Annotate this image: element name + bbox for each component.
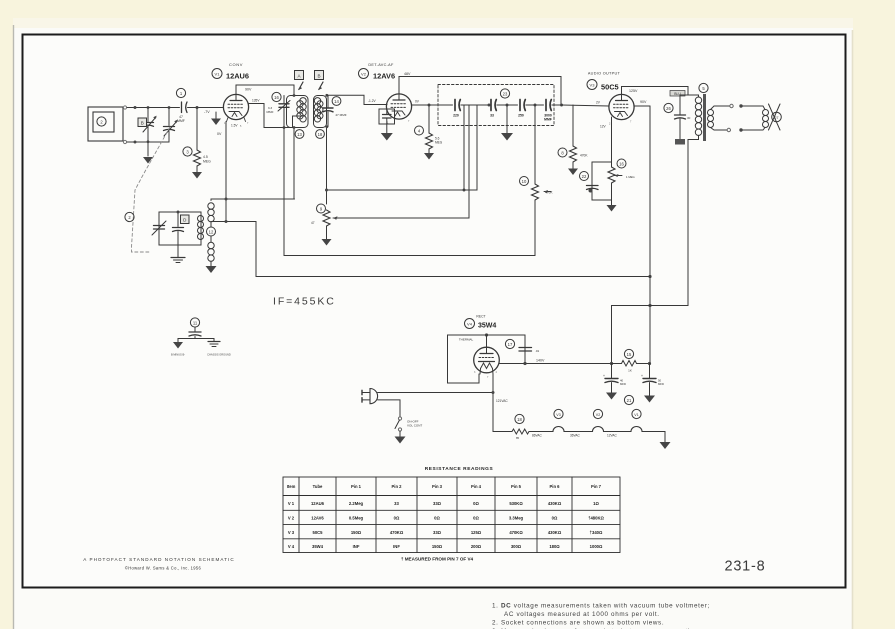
svg-text:AUDIO OUTPUT: AUDIO OUTPUT [588, 72, 621, 76]
node junction at cathode line [225, 198, 228, 201]
svg-text:MFD: MFD [658, 382, 664, 386]
wire: line y=218 with arrow [333, 106, 469, 219]
dashed gang coupling line [132, 127, 171, 252]
svg-text:125V: 125V [629, 89, 638, 93]
ground (diode load) [381, 124, 393, 141]
antenna terminal bottom [123, 140, 126, 143]
svg-text:16: 16 [619, 162, 624, 167]
heater V3 [553, 409, 564, 431]
svg-text:4.5: 4.5 [203, 155, 208, 159]
ground (couplate center) [501, 105, 513, 141]
svg-text:430KΩ: 430KΩ [548, 501, 562, 506]
wire heater string end to ground [642, 432, 665, 443]
svg-text:1000Ω: 1000Ω [590, 544, 603, 549]
speaker terminals [730, 104, 733, 107]
svg-text:90V: 90V [245, 88, 252, 92]
volume control R16 with box [592, 159, 635, 200]
svg-text:0Ω: 0Ω [394, 516, 400, 521]
svg-text:220: 220 [453, 114, 459, 118]
svg-text:Pin 1: Pin 1 [351, 484, 362, 489]
capacitor couplate Ca [453, 100, 488, 118]
svg-text:-7V: -7V [204, 110, 210, 114]
svg-text:86VAC: 86VAC [532, 434, 543, 438]
svg-text:0.5Meg: 0.5Meg [349, 516, 364, 521]
svg-text:V1: V1 [215, 72, 221, 77]
resistor R10 470K on AVC drop [520, 105, 554, 256]
couplate dashed box [438, 85, 554, 126]
ground (osc coil) [206, 266, 217, 273]
svg-text:140V: 140V [536, 359, 545, 363]
svg-text:CHASSIS GROUND: CHASSIS GROUND [207, 353, 231, 357]
heater string wire [493, 431, 512, 433]
svg-text:23: 23 [503, 92, 508, 97]
oscillator coil upper winding [208, 199, 214, 222]
svg-text:0Ω: 0Ω [552, 516, 558, 521]
resistor R8 470K grid [558, 105, 588, 169]
wire V1 screen to IF [249, 104, 295, 128]
resistor R9 [311, 204, 330, 239]
svg-text:+: + [641, 374, 643, 378]
svg-text:1Ω: 1Ω [593, 501, 599, 506]
svg-text:B: B [317, 73, 320, 78]
node: antenna bottom junction [134, 141, 137, 144]
svg-text:21: 21 [627, 398, 632, 403]
electrolytic C19B 50MFD [641, 364, 664, 403]
wire V2 plate right [412, 104, 439, 106]
svg-text:V2: V2 [596, 413, 600, 417]
wire: antenna bottom [127, 141, 169, 143]
svg-text:180Ω: 180Ω [549, 544, 560, 549]
svg-text:Pin 3: Pin 3 [432, 484, 443, 489]
svg-text:135V: 135V [252, 99, 260, 103]
svg-text:1K: 1K [628, 369, 632, 373]
IF transformer T1 primary [287, 85, 309, 128]
ground (R4) [424, 153, 434, 160]
wire V1 plate to top rail [236, 85, 294, 95]
svg-text:V 3: V 3 [288, 530, 295, 535]
oscillator fixed cap [173, 212, 184, 245]
node: osc coil tap ref 12 [207, 222, 216, 242]
capacitor C22 on volume box [580, 172, 599, 193]
svg-text:DET-AVC-AF: DET-AVC-AF [368, 63, 394, 67]
line bypass capacitor C11 [178, 318, 214, 342]
paper right edge shadow [852, 30, 854, 629]
svg-text:50C5: 50C5 [312, 530, 323, 535]
svg-text:Pin 5: Pin 5 [511, 484, 522, 489]
svg-text:.01: .01 [535, 349, 540, 353]
svg-text:Pin 7: Pin 7 [591, 484, 602, 489]
svg-text:1. DC voltage measurements ta: 1. DC voltage measurements taken with va… [492, 603, 710, 610]
AC line plug [362, 389, 378, 404]
svg-text:-1.2V: -1.2V [368, 99, 376, 103]
svg-text:† MEASURED FROM PIN 7 OF V4: † MEASURED FROM PIN 7 OF V4 [401, 557, 474, 562]
svg-text:©Howard W. Sams & Co., Inc. 19: ©Howard W. Sams & Co., Inc. 1956 [125, 566, 202, 571]
resistor R15 1K filter [612, 349, 651, 372]
wire: AVC line y=255.5 [284, 255, 535, 257]
svg-text:MMF: MMF [266, 110, 273, 114]
capacitor couplate Cd [544, 100, 562, 122]
wire: AVC line y=190 [327, 106, 478, 191]
node junction screen/B+ [648, 304, 651, 307]
svg-text:200Ω: 200Ω [471, 544, 482, 549]
svg-text:2.2Meg: 2.2Meg [349, 501, 364, 506]
node junctions couplate [488, 104, 491, 107]
svg-text:90V: 90V [640, 100, 647, 104]
wire V3 cathode to volume control [611, 117, 613, 162]
svg-text:B: B [141, 121, 144, 126]
loop antenna L1 [88, 107, 123, 141]
svg-text:36VAC: 36VAC [570, 434, 581, 438]
ground (R8) [568, 169, 578, 176]
footnotes below frame [492, 603, 710, 629]
wire V2 plate top rail to V3 grid [399, 77, 561, 106]
svg-text:IF=455KC: IF=455KC [273, 296, 336, 308]
node junction V4 plate [485, 333, 488, 336]
svg-text:RESISTANCE READINGS: RESISTANCE READINGS [425, 466, 494, 472]
chassis ground right (bypass) [208, 342, 220, 347]
svg-text:231-8: 231-8 [724, 559, 765, 575]
svg-text:12AV6: 12AV6 [373, 72, 395, 81]
svg-text:22: 22 [582, 174, 587, 179]
svg-text:10: 10 [522, 179, 527, 184]
svg-text:3.3Meg: 3.3Meg [509, 516, 524, 521]
trimmer capacitor C16 [266, 92, 290, 128]
svg-text:Tube: Tube [313, 484, 323, 489]
capacitor couplate Cc [518, 100, 543, 118]
svg-text:MEG: MEG [203, 160, 211, 164]
svg-text:THERMAL: THERMAL [459, 338, 474, 342]
svg-text:121VAC: 121VAC [496, 399, 508, 403]
node: osc cap top junction [177, 211, 180, 214]
svg-text:A PHOTOFACT STANDARD NOTATION: A PHOTOFACT STANDARD NOTATION SCHEMATIC [83, 557, 234, 562]
svg-text:27: 27 [775, 116, 779, 120]
ground (R9) [322, 239, 332, 246]
node junction [225, 220, 228, 223]
svg-text:12VAC: 12VAC [607, 434, 618, 438]
svg-text:26: 26 [666, 106, 671, 111]
capacitor C17 [505, 339, 539, 353]
electrolytic C26 on B+ [664, 95, 691, 145]
node: IF primary bottom ref 13 [295, 130, 304, 139]
svg-text:0V: 0V [217, 132, 222, 136]
wire: osc tap line y=221 [211, 222, 256, 277]
svg-text:430KΩ: 430KΩ [548, 530, 562, 535]
capacitor couplate Cb [490, 100, 517, 118]
oscillator coil box [159, 212, 201, 245]
svg-text:13: 13 [297, 132, 302, 137]
svg-text:V 4: V 4 [288, 544, 295, 549]
svg-text:33Ω: 33Ω [433, 530, 442, 535]
tube V3 50C5 audio output [587, 72, 634, 126]
heater V2 [593, 409, 604, 431]
oscillator coil winding (in box) [198, 216, 204, 240]
wire V4 plate top [487, 335, 526, 364]
svg-text:35W4: 35W4 [478, 323, 496, 330]
alignment point D [181, 215, 190, 224]
svg-text:†340Ω: †340Ω [590, 530, 603, 535]
svg-text:B MINUS B-: B MINUS B- [171, 353, 185, 357]
paper left edge shadow [13, 25, 15, 629]
ground left (bypass) [173, 342, 183, 349]
wire to speaker [743, 106, 766, 110]
node ref 5 output transformer [699, 83, 708, 92]
heater loop box V4 [448, 335, 487, 383]
node junction at grid resistor [196, 106, 199, 109]
svg-text:12AU6: 12AU6 [226, 72, 249, 81]
svg-text:MEG: MEG [435, 141, 443, 145]
svg-text:470KΩ: 470KΩ [509, 530, 523, 535]
svg-text:33: 33 [490, 114, 494, 118]
svg-text:0Ω: 0Ω [473, 501, 479, 506]
svg-text:Item: Item [287, 484, 296, 489]
electrolytic C19A 40MFD [603, 364, 626, 400]
capacitor C14 47MMF [323, 95, 347, 127]
wire plug neutral to switch [378, 400, 400, 417]
output transformer secondary [708, 106, 730, 130]
wire to V2 grid [327, 95, 387, 104]
switch ON-OFF [395, 417, 422, 437]
svg-text:Pin 2: Pin 2 [391, 484, 402, 489]
svg-text:12: 12 [209, 230, 214, 235]
wire: osc coil top to grid line [211, 198, 295, 200]
node junction B+ bus right [648, 275, 651, 278]
svg-text:MMF: MMF [177, 119, 185, 123]
label BLU lead [670, 91, 685, 97]
wire V3 screen to B+ vertical [634, 105, 650, 107]
wire plug hot to heater [378, 392, 493, 394]
node ref 21 [624, 395, 633, 404]
wire V3 plate to output transformer [622, 87, 689, 96]
diode load box (V2) [379, 109, 395, 124]
wire output transformer return down [612, 140, 689, 364]
svg-text:V1: V1 [634, 413, 638, 417]
svg-text:AC voltages measured at 1000 o: AC voltages measured at 1000 ohms per vo… [504, 611, 660, 618]
svg-text:47: 47 [311, 221, 315, 225]
svg-text:V 1: V 1 [288, 501, 295, 506]
svg-text:150Ω: 150Ω [351, 530, 362, 535]
resistor R1 4.5 MEG grid leak [183, 108, 211, 173]
wire: antenna top rail [127, 107, 180, 109]
svg-text:125Ω: 125Ω [471, 530, 482, 535]
tube V1 12AU6 converter [212, 62, 249, 128]
svg-text:0Ω: 0Ω [473, 516, 479, 521]
svg-text:0Ω: 0Ω [434, 516, 440, 521]
alignment point B [138, 118, 147, 127]
alignment point B2 [315, 71, 324, 91]
oscillator padder variable cap [152, 221, 166, 235]
ground (volume box) [607, 200, 617, 212]
wire: B+ bus y=276 [256, 276, 650, 278]
ground (R1) [192, 172, 202, 179]
svg-text:33Ω: 33Ω [433, 501, 442, 506]
svg-text:48V: 48V [404, 72, 411, 76]
svg-text:15: 15 [627, 352, 632, 357]
svg-text:1.5V: 1.5V [231, 124, 238, 128]
wire V4 cathode output B+ [500, 363, 612, 365]
tuning gang capacitor C2A [143, 108, 157, 157]
capacitor C1 47MMF [176, 88, 196, 123]
wire V1 cathode down to oscillator [225, 122, 227, 222]
svg-text:RECT: RECT [476, 315, 485, 319]
svg-text:MMF: MMF [544, 118, 552, 122]
chassis ground (osc cap) [171, 245, 185, 263]
ground (switch) [395, 437, 406, 444]
tube V4 35W4 rectifier [465, 315, 500, 380]
resistor R4 5.6 MEG [415, 105, 443, 153]
svg-text:Pin 4: Pin 4 [471, 484, 482, 489]
svg-text:12AU6: 12AU6 [311, 501, 325, 506]
ground (V1 grid return) [211, 112, 221, 125]
svg-text:33: 33 [394, 501, 399, 506]
wire heater down 121VAC [492, 374, 494, 432]
svg-text:250: 250 [518, 114, 524, 118]
svg-text:12V: 12V [600, 125, 607, 129]
node: gang ref circle 2 [125, 212, 134, 221]
wire B+ vertical x=650 [649, 106, 651, 364]
svg-text:V3: V3 [556, 413, 560, 417]
antenna terminal top [123, 106, 126, 109]
svg-text:11: 11 [193, 321, 198, 326]
node: IF secondary bottom ref 18 [316, 130, 325, 139]
svg-text:16: 16 [274, 95, 279, 100]
svg-text:+: + [603, 374, 605, 378]
svg-text:47 MMF: 47 MMF [335, 113, 346, 117]
svg-text:470K: 470K [580, 154, 588, 158]
IF transformer T1 secondary [314, 94, 329, 204]
output transformer core [703, 94, 706, 141]
svg-text:CONV: CONV [229, 62, 243, 67]
svg-text:Pin 6: Pin 6 [549, 484, 560, 489]
node ref 23 couplate [500, 89, 509, 98]
heater V1 [631, 409, 642, 431]
svg-text:30: 30 [687, 116, 691, 120]
svg-text:50C5: 50C5 [601, 83, 619, 92]
wire B+ drop from trimmer node [283, 128, 285, 256]
output transformer T2 primary [688, 95, 702, 140]
svg-text:470KΩ: 470KΩ [390, 530, 404, 535]
svg-text:150Ω: 150Ω [432, 544, 443, 549]
svg-text:V 2: V 2 [288, 516, 295, 521]
svg-text:12AV6: 12AV6 [311, 516, 324, 521]
oscillator coil lower winding [208, 242, 214, 266]
svg-text:18: 18 [318, 132, 323, 137]
wire: couplate drop x=464 [463, 106, 465, 191]
resistance readings table [283, 466, 620, 553]
svg-text:V2: V2 [361, 72, 367, 77]
wire to V3 grid [562, 105, 610, 106]
tuning gang capacitor C2B [164, 108, 178, 143]
resistor R18 line dropping [512, 414, 529, 440]
ground (C2A) [143, 157, 153, 164]
svg-text:V4: V4 [467, 322, 473, 327]
svg-text:18: 18 [517, 417, 522, 422]
svg-text:35W4: 35W4 [312, 544, 324, 549]
wire to V1 grid [197, 107, 224, 109]
alignment point A [295, 71, 304, 91]
svg-text:85: 85 [516, 436, 520, 440]
svg-text:MFD: MFD [620, 382, 626, 386]
svg-text:1 MEG: 1 MEG [626, 175, 635, 179]
svg-text:†480KΩ: †480KΩ [588, 516, 604, 521]
svg-text:INF: INF [393, 544, 400, 549]
wire IF primary return [293, 128, 295, 199]
tube V2 12AV6 det-avc-af [359, 63, 412, 125]
svg-text:17: 17 [508, 342, 513, 347]
svg-text:VOL CONT: VOL CONT [407, 424, 422, 428]
svg-text:V3: V3 [590, 83, 596, 88]
svg-text:INF: INF [353, 544, 360, 549]
svg-text:14: 14 [334, 99, 339, 104]
svg-text:2. Socket connections are sho: 2. Socket connections are shown as botto… [492, 620, 664, 627]
wire couplate internal bus [438, 104, 453, 106]
speaker SP voice coil [763, 104, 782, 130]
svg-text:530KΩ: 530KΩ [509, 501, 523, 506]
node: antenna top junction [134, 106, 137, 109]
svg-text:300Ω: 300Ω [511, 544, 522, 549]
